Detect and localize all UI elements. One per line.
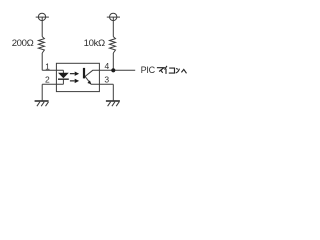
svg-text:PIC: PIC xyxy=(141,65,156,75)
svg-text:1: 1 xyxy=(45,61,50,71)
svg-text:4: 4 xyxy=(105,61,110,71)
svg-text:200Ω: 200Ω xyxy=(12,38,34,49)
svg-text:2: 2 xyxy=(45,74,50,84)
svg-text:10kΩ: 10kΩ xyxy=(84,38,105,49)
svg-text:3: 3 xyxy=(104,74,109,84)
